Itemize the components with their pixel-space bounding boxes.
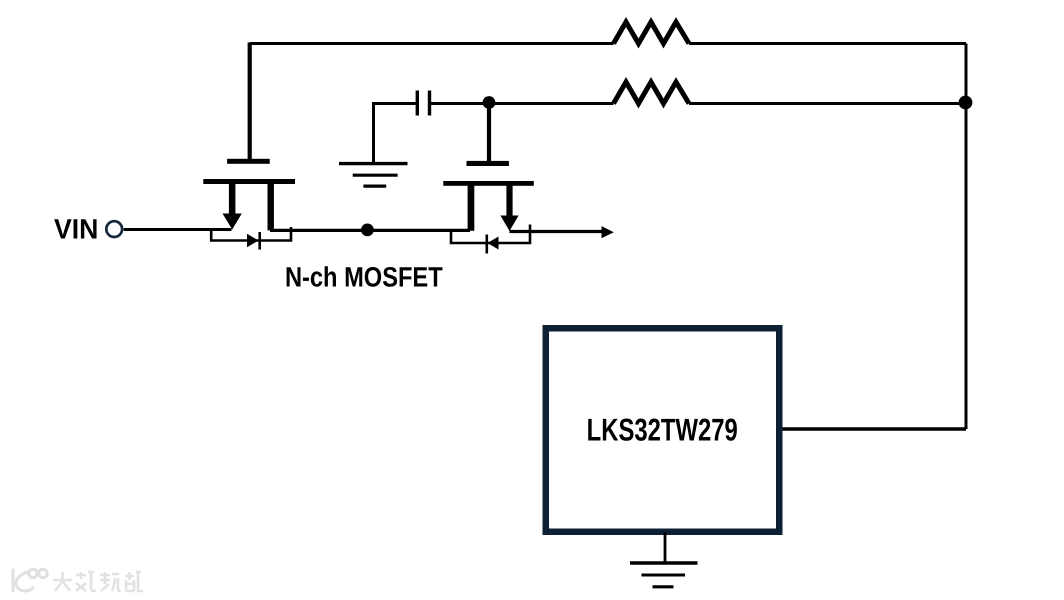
wire U1 ground stem bbox=[664, 532, 667, 562]
IC U1 box bbox=[546, 328, 780, 532]
svg-text:LKS32TW279: LKS32TW279 bbox=[587, 412, 738, 448]
transistor Q2 drain arrow bbox=[500, 185, 518, 231]
watermark logo bbox=[13, 569, 47, 591]
ground GND2 bbox=[630, 563, 698, 587]
diode D2 bracket bbox=[451, 225, 530, 244]
diode D1 bbox=[247, 232, 260, 250]
watermark text bbox=[53, 572, 143, 591]
transistor Q2 gate bar bbox=[467, 161, 509, 166]
svg-text:VIN: VIN bbox=[54, 214, 98, 245]
wire middle horizontal right bbox=[689, 102, 966, 105]
transistor Q1 source arrow bbox=[223, 183, 242, 230]
wire feedback to U1 bbox=[781, 427, 966, 431]
wire top horizontal left bbox=[250, 42, 614, 45]
node C junction dot bbox=[361, 224, 374, 237]
wire capacitor left lead bbox=[374, 104, 418, 164]
transistor Q2 channel bar bbox=[443, 181, 534, 186]
transistor Q1 gate bar bbox=[227, 159, 270, 164]
resistor R1 bbox=[614, 22, 690, 44]
wire VIN to Q1 bbox=[124, 228, 232, 231]
wire middle horizontal bbox=[430, 102, 614, 105]
diode D2 bbox=[487, 235, 499, 254]
transistor Q2 source leg bbox=[468, 185, 475, 231]
wire top horizontal right bbox=[689, 42, 966, 45]
transistor Q1 drain leg bbox=[268, 183, 274, 230]
svg-text:N-ch MOSFET: N-ch MOSFET bbox=[285, 262, 443, 293]
resistor R2 bbox=[614, 82, 690, 104]
wire source rail bbox=[270, 229, 470, 232]
wire gate lead Q2 bbox=[487, 103, 491, 162]
arrow output head bbox=[602, 226, 614, 238]
diode D1 bracket bbox=[211, 227, 291, 241]
wire top-left gate lead Q1 bbox=[248, 43, 252, 160]
wire output bbox=[510, 230, 603, 233]
wire right vertical bbox=[965, 44, 968, 430]
terminal VIN circle bbox=[106, 221, 122, 237]
transistor Q1 channel bar bbox=[203, 179, 295, 184]
ground GND1 bbox=[339, 164, 408, 187]
capacitor C1 bbox=[417, 91, 429, 116]
node B junction dot bbox=[959, 96, 973, 110]
node A junction dot bbox=[483, 96, 496, 109]
